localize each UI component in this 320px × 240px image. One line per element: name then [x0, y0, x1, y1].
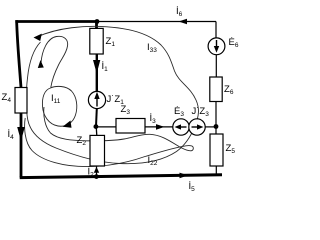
resistor Z5 — [210, 134, 223, 166]
wire: E6 to Z6 — [215, 55, 217, 77]
junction node: right (Z6/Z5/J·Z3) — [214, 124, 219, 129]
junction node: bottom (below Z2) — [94, 174, 99, 179]
resistor Z2 — [90, 135, 105, 166]
current source J·Z3 — [189, 119, 205, 135]
arrowhead of loop I11 (points down-left) — [63, 121, 72, 128]
resistor Z3 — [116, 119, 145, 134]
wire: center junction to Z3 — [96, 126, 116, 128]
wire: Z5 to bottom bus — [215, 166, 217, 176]
loop current I33 curve — [26, 26, 198, 163]
wire: thick bottom bus — [20, 175, 222, 178]
wire: Z2 to bottom bus — [96, 166, 98, 177]
current arrow I1 — [93, 60, 100, 74]
arrowhead of loop I33 (points left) — [34, 34, 42, 41]
wire: thin top-right run — [98, 21, 217, 23]
wire: source J·Z3 to right junction — [205, 126, 216, 128]
resistor Z6 — [210, 77, 222, 102]
resistor Z4 — [15, 88, 27, 114]
junction node: center (below J·Z1) — [94, 124, 99, 129]
current arrow I4 — [17, 127, 25, 141]
wire: thick left bus (top corner down to Z4) — [17, 20, 21, 87]
current source J·Z1 — [88, 91, 105, 108]
voltage source E6 — [208, 38, 225, 55]
loop current I22 curve — [25, 107, 194, 167]
current arrow I2 (points up) — [94, 167, 99, 173]
wire: thick center drop from top junction to Z1 — [95, 22, 98, 29]
junction node: top center — [95, 19, 100, 24]
wire: thick top bus (left corner to center junction) — [15, 20, 97, 23]
current arrow I5 (points right, on bottom bus) — [180, 173, 189, 179]
loop current I11 tail stroke — [41, 36, 68, 87]
wire: center junction to Z2 — [95, 127, 98, 136]
current arrow I3 (points right) — [156, 124, 165, 130]
loop current I11 ellipse — [42, 86, 76, 126]
wire: right vertical, top corner to E6 — [215, 22, 217, 39]
wire: thick left bus (Z4 down to bottom corner) — [20, 113, 23, 177]
voltage source E3 — [173, 119, 189, 135]
resistor Z1 — [90, 28, 103, 54]
arrowhead on I11 tail (points up) — [38, 60, 44, 68]
current arrow I6 (points left, on top wire) — [179, 19, 188, 25]
wire: Z6 to right junction and on to Z5 — [215, 102, 217, 135]
wire: Z1 to source J·Z1 (current I1 branch) — [96, 54, 98, 92]
wire: source J·Z1 to center junction — [95, 109, 98, 127]
wire: Z3 to source E3 — [145, 126, 173, 128]
